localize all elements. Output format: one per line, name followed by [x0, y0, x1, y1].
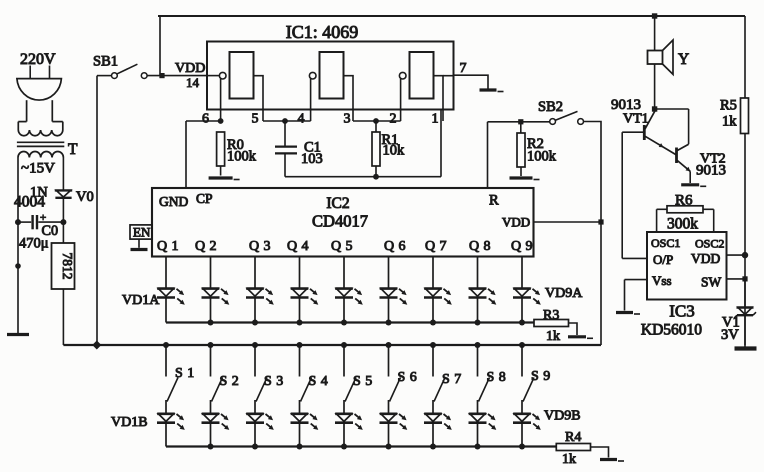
- svg-text:4004: 4004: [14, 194, 45, 211]
- svg-text:SB1: SB1: [93, 54, 118, 70]
- svg-text:O/P: O/P: [653, 252, 673, 267]
- svg-text:7: 7: [460, 61, 467, 76]
- svg-text:Vss: Vss: [652, 273, 672, 288]
- svg-text:14: 14: [186, 75, 200, 90]
- svg-text:V0: V0: [76, 189, 94, 205]
- svg-text:R3: R3: [543, 308, 559, 323]
- svg-text:SW: SW: [701, 274, 722, 289]
- svg-text:100k: 100k: [527, 149, 557, 165]
- svg-text:CP: CP: [196, 191, 213, 206]
- svg-text:1k: 1k: [722, 114, 737, 130]
- svg-text:~15V: ~15V: [21, 161, 55, 177]
- svg-text:S 4: S 4: [309, 374, 329, 389]
- svg-text:1k: 1k: [546, 329, 560, 344]
- svg-text:T: T: [68, 141, 78, 158]
- svg-text:IC1: 4069: IC1: 4069: [286, 22, 359, 42]
- svg-text:IC2: IC2: [326, 195, 349, 212]
- svg-text:VDD: VDD: [175, 61, 205, 76]
- svg-text:VD9B: VD9B: [544, 409, 581, 424]
- svg-text:Y: Y: [678, 51, 689, 68]
- svg-text:R6: R6: [675, 193, 693, 209]
- svg-text:Q 6: Q 6: [384, 239, 406, 254]
- svg-text:2: 2: [390, 112, 397, 127]
- svg-text:Q 4: Q 4: [287, 239, 309, 254]
- svg-text:10k: 10k: [383, 143, 406, 159]
- svg-text:R: R: [489, 193, 499, 209]
- svg-text:S 1: S 1: [175, 366, 195, 381]
- svg-text:3V: 3V: [721, 327, 739, 343]
- svg-text:300k: 300k: [667, 216, 698, 233]
- svg-text:1: 1: [432, 112, 439, 127]
- svg-text:220V: 220V: [20, 51, 56, 68]
- svg-text:5: 5: [252, 112, 259, 127]
- svg-text:R5: R5: [720, 98, 737, 114]
- svg-text:KD56010: KD56010: [641, 322, 702, 339]
- svg-text:6: 6: [202, 112, 209, 127]
- svg-text:Q 8: Q 8: [469, 239, 491, 254]
- svg-text:GND: GND: [159, 194, 188, 209]
- svg-text:S 9: S 9: [531, 369, 551, 384]
- svg-text:IC3: IC3: [669, 302, 695, 321]
- svg-text:OSC1: OSC1: [651, 236, 680, 250]
- svg-text:VDD: VDD: [691, 251, 720, 266]
- svg-text:Q 3: Q 3: [249, 239, 271, 254]
- svg-text:CD4017: CD4017: [312, 212, 368, 231]
- svg-text:9013: 9013: [696, 163, 726, 179]
- svg-text:Q 2: Q 2: [195, 239, 217, 254]
- svg-text:S 8: S 8: [487, 370, 507, 385]
- svg-text:VD1A: VD1A: [122, 293, 160, 308]
- svg-text:VD9A: VD9A: [545, 286, 583, 301]
- svg-text:103: 103: [301, 151, 323, 167]
- svg-text:S 6: S 6: [398, 370, 418, 385]
- svg-text:S 5: S 5: [353, 374, 373, 389]
- svg-text:S 7: S 7: [442, 372, 462, 387]
- svg-text:SB2: SB2: [538, 99, 563, 115]
- svg-text:Q 7: Q 7: [425, 239, 447, 254]
- svg-text:Q 1: Q 1: [157, 239, 179, 254]
- svg-text:470μ: 470μ: [19, 236, 49, 252]
- svg-text:VT1: VT1: [623, 112, 649, 127]
- svg-text:100k: 100k: [227, 149, 257, 165]
- svg-text:4: 4: [298, 112, 305, 127]
- svg-text:Q 9: Q 9: [511, 239, 533, 254]
- svg-text:R4: R4: [565, 430, 581, 445]
- svg-text:EN: EN: [133, 225, 151, 240]
- svg-text:VD1B: VD1B: [111, 415, 148, 430]
- svg-text:Q 5: Q 5: [331, 239, 353, 254]
- svg-text:S 2: S 2: [220, 374, 240, 389]
- svg-text:S 3: S 3: [264, 374, 284, 389]
- svg-text:OSC2: OSC2: [695, 237, 724, 251]
- svg-text:1k: 1k: [562, 452, 576, 467]
- svg-text:VDD: VDD: [502, 215, 530, 230]
- svg-text:7812: 7812: [60, 253, 75, 280]
- svg-text:3: 3: [344, 112, 351, 127]
